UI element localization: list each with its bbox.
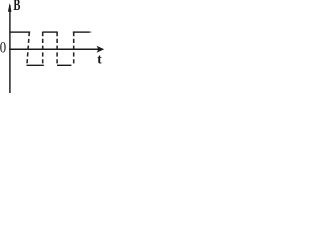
drop 2 (dashed vertical): [56, 32, 58, 65]
top pulse 2: [42, 31, 57, 33]
square wave: top pulse 1: [9, 31, 30, 33]
rise 2 (dashed vertical): [73, 32, 75, 65]
svg-text:0: 0: [0, 39, 6, 56]
bottom pulse 1: [27, 64, 44, 66]
B axis arrowhead: [8, 3, 12, 12]
t axis (horizontal): [9, 48, 101, 50]
top pulse 3: [73, 31, 90, 33]
B axis (vertical): [9, 5, 11, 93]
svg-text:t: t: [97, 51, 102, 66]
t axis arrowhead: [97, 46, 105, 53]
rise 1 (dashed vertical): [42, 32, 44, 65]
bottom pulse 2: [57, 64, 71, 66]
drop 1 (dashed vertical): [27, 32, 29, 65]
svg-text:B: B: [13, 0, 20, 14]
